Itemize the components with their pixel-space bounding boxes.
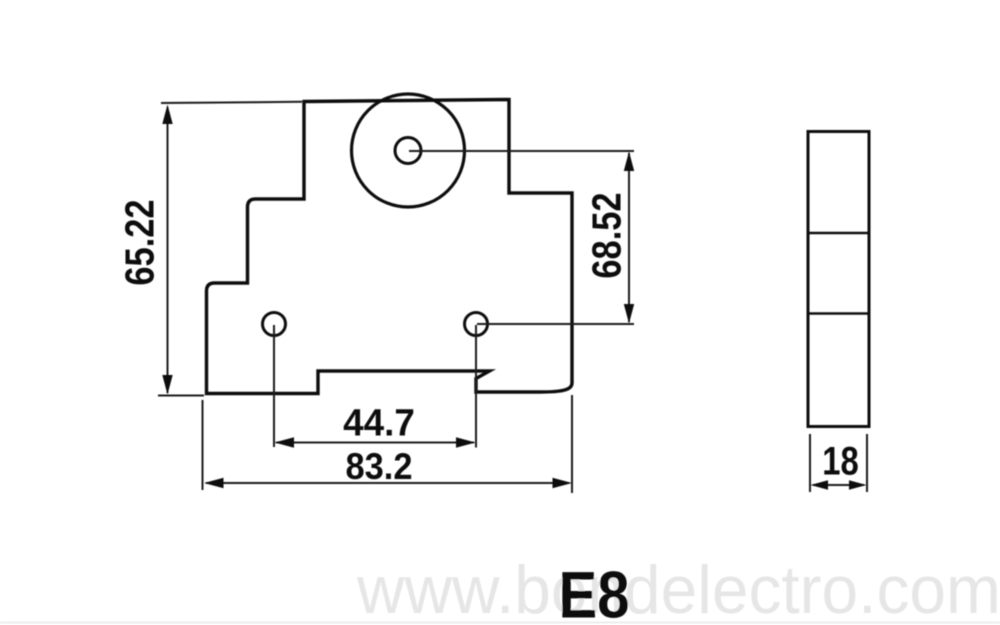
svg-text:68.52: 68.52 xyxy=(585,192,630,278)
svg-text:83.2: 83.2 xyxy=(346,446,413,487)
68.52 bottom arrow xyxy=(624,304,634,324)
extension line top left xyxy=(161,102,302,103)
dim line 18 xyxy=(813,484,864,486)
extension 18 left xyxy=(809,434,811,492)
dim line 65.22 xyxy=(167,107,169,393)
dim line 68.52 xyxy=(628,153,630,322)
faint bottom rule xyxy=(0,622,1000,624)
extension 83.2 left xyxy=(202,400,204,490)
side view rectangle xyxy=(808,132,869,427)
centerline left hole vertical xyxy=(273,325,275,447)
extension 18 right xyxy=(866,434,868,492)
thin lines xyxy=(158,102,867,493)
83.2 right arrow xyxy=(553,478,573,488)
83.2 left arrow xyxy=(204,478,224,488)
18 right arrow xyxy=(849,480,867,489)
44.7 left arrow xyxy=(275,437,295,447)
part outline main view xyxy=(207,100,573,394)
svg-text:18: 18 xyxy=(822,439,858,484)
svg-text:44.7: 44.7 xyxy=(343,401,415,444)
inner hole of big circle xyxy=(395,138,421,164)
18 left arrow xyxy=(811,480,829,489)
side view divider line upper xyxy=(808,232,869,234)
68.52 top arrow xyxy=(624,152,634,172)
left mounting hole xyxy=(263,313,286,336)
centerline big circle horizontal xyxy=(409,150,634,152)
arrowheads xyxy=(162,105,866,490)
svg-text:www.bondelectro.com: www.bondelectro.com xyxy=(356,552,1000,625)
svg-text:65.22: 65.22 xyxy=(118,199,163,285)
svg-text:E8: E8 xyxy=(559,559,630,625)
side view divider line lower xyxy=(808,312,869,314)
centerline right hole vertical xyxy=(475,325,477,448)
extension line bottom left xyxy=(158,395,204,397)
dim line 44.7 xyxy=(276,442,474,444)
65.22 bottom arrow xyxy=(162,375,172,395)
big circle (knob) xyxy=(352,94,465,207)
right mounting hole xyxy=(465,313,488,336)
65.22 top arrow xyxy=(162,105,172,125)
44.7 right arrow xyxy=(456,437,476,447)
dim line 83.2 xyxy=(206,482,569,484)
centerline right hole horizontal xyxy=(477,323,634,325)
extension 83.2 right xyxy=(571,395,573,493)
